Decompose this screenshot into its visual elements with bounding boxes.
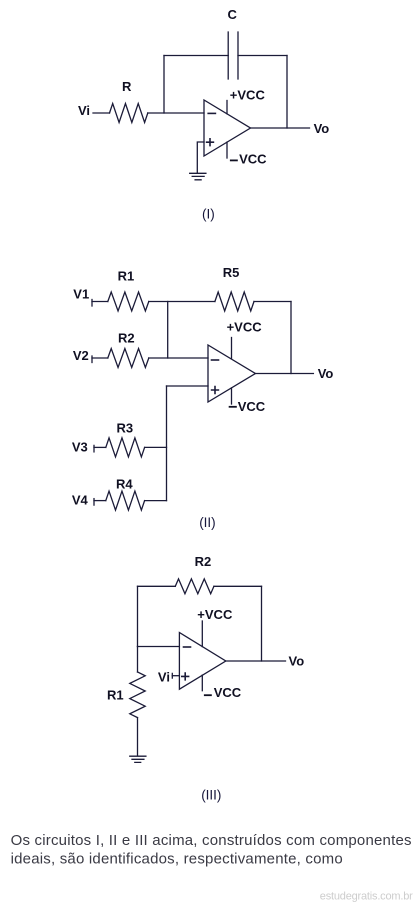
svg-text:Os circuitos I, II e III acima: Os circuitos I, II e III acima, construí… <box>11 832 412 849</box>
svg-text:V1: V1 <box>73 287 89 302</box>
svg-text:+VCC: +VCC <box>227 319 263 334</box>
svg-text:R2: R2 <box>118 331 135 346</box>
svg-text:estudegratis.com.br: estudegratis.com.br <box>320 891 413 903</box>
svg-text:R1: R1 <box>118 269 135 284</box>
wire feedback left vertical <box>137 586 139 646</box>
wire resistor to op-amp inverting input <box>148 112 204 114</box>
wire feedback right vertical <box>286 56 288 129</box>
label -VCC (I) <box>230 159 238 161</box>
op-amp U2 <box>208 345 255 402</box>
label -VCC (III) <box>204 694 212 696</box>
+VCC stub <box>231 338 233 359</box>
capacitor C <box>228 32 238 79</box>
op-amp U3 <box>179 633 225 690</box>
svg-text:V4: V4 <box>72 493 89 508</box>
wire R3 to junction <box>145 446 167 448</box>
wire feedback top right <box>214 585 262 587</box>
svg-text:Vi: Vi <box>158 669 170 684</box>
wire feedback right vertical <box>261 586 263 661</box>
wire non-inverting input <box>167 385 209 387</box>
svg-text:R1: R1 <box>107 688 124 703</box>
wire V1 <box>92 301 108 303</box>
resistor R1 <box>108 292 149 311</box>
wire non-inverting vertical <box>166 386 168 501</box>
node V4 terminal <box>93 499 95 506</box>
node Vi terminal <box>171 673 173 678</box>
wire feedback right vertical <box>290 302 292 374</box>
resistor R3 <box>106 438 145 457</box>
wire V4 <box>94 500 106 502</box>
op-amp U3 minus sign <box>184 646 191 648</box>
svg-text:+VCC: +VCC <box>230 88 266 103</box>
svg-text:R5: R5 <box>223 265 240 280</box>
svg-text:C: C <box>228 7 238 22</box>
wire junction down to inverting node <box>167 302 169 359</box>
svg-text:Vo: Vo <box>318 366 334 381</box>
resistor R5 <box>215 292 254 311</box>
svg-text:ideais, são identificados, res: ideais, são identificados, respectivamen… <box>11 851 343 868</box>
wire inverting input <box>138 646 180 648</box>
svg-text:R: R <box>122 79 132 94</box>
node V2 terminal <box>91 356 93 363</box>
wire V2 <box>92 357 108 359</box>
ground <box>190 173 206 180</box>
op-amp U1 minus sign <box>208 112 215 114</box>
svg-text:(II): (II) <box>199 515 216 530</box>
-VCC stub <box>231 388 233 404</box>
resistor R1 <box>130 672 145 718</box>
resistor R4 <box>106 491 145 510</box>
resistor R2 <box>175 579 214 594</box>
resistor R <box>110 104 148 123</box>
+VCC stub <box>226 101 228 114</box>
svg-text:+VCC: +VCC <box>197 607 233 622</box>
op-amp U2 plus sign <box>212 387 219 394</box>
svg-text:R4: R4 <box>116 477 133 492</box>
-VCC stub <box>201 675 203 691</box>
node V3 terminal <box>93 445 95 452</box>
wire V3 <box>94 446 106 448</box>
wire R1 to R5 <box>149 301 215 303</box>
wire feedback top right <box>238 55 287 57</box>
svg-text:V3: V3 <box>72 440 88 455</box>
resistor R2 <box>108 349 149 368</box>
svg-text:Vo: Vo <box>314 121 330 136</box>
op-amp U3 plus sign <box>182 673 189 680</box>
wire R4 to junction <box>145 500 167 502</box>
wire feedback left vertical <box>163 56 165 114</box>
wire non-inverting input <box>197 142 204 173</box>
-VCC stub <box>226 142 228 158</box>
svg-text:VCC: VCC <box>214 685 242 700</box>
+VCC stub <box>201 621 203 647</box>
label -VCC (II) <box>229 406 237 408</box>
wire output <box>226 660 286 662</box>
svg-text:VCC: VCC <box>239 151 267 166</box>
op-amp U2 minus sign <box>212 359 219 361</box>
svg-text:VCC: VCC <box>238 399 266 414</box>
wire feedback top left <box>164 55 228 57</box>
ground <box>130 756 146 762</box>
node V1 terminal <box>91 300 93 307</box>
svg-text:R3: R3 <box>117 421 134 436</box>
wire output <box>251 127 310 129</box>
svg-text:R2: R2 <box>195 554 212 569</box>
wire output <box>255 373 313 375</box>
wire Vi to non-inverting input <box>172 675 179 677</box>
svg-text:Vi: Vi <box>78 103 90 118</box>
wire R2 to op-amp inverting input <box>149 357 208 359</box>
wire Vi input <box>93 112 110 114</box>
op-amp U1 plus sign <box>207 139 214 146</box>
wire R5 to corner <box>254 301 291 303</box>
op-amp U1 <box>204 100 251 156</box>
svg-text:(I): (I) <box>202 206 215 221</box>
wire R1 to ground <box>137 718 139 756</box>
svg-text:V2: V2 <box>73 348 89 363</box>
svg-text:Vo: Vo <box>289 654 305 669</box>
svg-text:(III): (III) <box>201 787 221 802</box>
wire node to R1 <box>137 647 139 673</box>
wire feedback top left <box>138 585 176 587</box>
